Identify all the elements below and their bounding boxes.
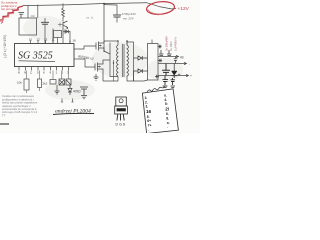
svg-text:wtórnego 2x18 zwojów fi 1.2: wtórnego 2x18 zwojów fi 1.2 [2,110,38,114]
plus mark near row3 [178,74,180,77]
capacitor C4 (dark) [66,79,71,85]
svg-text:2!: 2! [165,107,170,112]
diode D3 [134,56,148,60]
svg-text:13: 13 [44,38,48,42]
red wire (staircase from left edge to +12V rail) [0,6,23,20]
svg-text:ew. 25V: ew. 25V [123,17,135,21]
svg-text:4700μ/16V: 4700μ/16V [122,12,137,16]
top pin stubs [31,40,70,43]
card title script [147,86,167,92]
black tick bottom-left edge [0,123,9,125]
svg-text:os. tL.: os. tL. [86,16,94,20]
wire rail to pin 12 [37,5,39,18]
capacitor C2 [41,22,49,24]
resistor R1 (zigzag) [62,3,65,21]
op IC U1 SG3525 [15,44,75,67]
transistor Q2 (MOSFET IRF540) [96,41,104,52]
TO-220 body [115,106,128,114]
typed gray note (7 lines) [2,94,38,117]
svg-text:47kΩ: 47kΩ [73,90,81,94]
wire secondary bottom [127,71,134,81]
capacitor C8 (electrolytic) [162,64,170,76]
capacitor small near box top [19,13,25,19]
scan mottle [23,16,183,100]
wire through red circle to +12V label [147,3,176,9]
resistor R4 [38,79,42,88]
svg-text:2k2: 2k2 [43,82,48,86]
top pin numbers [29,38,76,43]
wire output row1 [158,56,178,58]
capacitor C7 [167,50,172,56]
svg-text:16: 16 [73,38,77,42]
transistor Q1 extra strokes [58,23,63,27]
svg-text:.: . [167,125,168,129]
capacitor C6 [159,50,164,56]
signature underline [53,113,94,114]
tick marks above signature [61,99,63,103]
wire secondary top [127,42,134,81]
diode D1 [64,30,69,33]
TO-220 label band [117,108,126,111]
bottom pin stubs [19,67,69,71]
wire box to rail [27,5,29,18]
capacitor C1 4700u/16V [104,5,117,15]
svg-text:10k: 10k [17,81,22,85]
svg-text:(-)2 x (+10÷45V): (-)2 x (+10÷45V) [3,35,7,58]
wire stub above filter box [151,40,153,44]
node junction at x=104 on rail [103,3,105,5]
transformer T1 core [122,44,124,77]
capacitor mark box right low [155,75,159,78]
svg-text:10: 10 [29,38,33,42]
transformer T1 primary winding [117,45,119,76]
diode D2 [68,85,72,95]
wire Q2 source to vertical [104,51,110,54]
right pin stub 11 (out B) [74,58,79,60]
svg-text:SG 3525: SG 3525 [18,51,53,62]
wire +12V top rail [23,3,147,6]
svg-text:5:: 5: [165,102,168,106]
red note text top-left [0,0,19,11]
svg-text:.: . [148,128,149,132]
wire gate A to Q2 [79,46,96,49]
svg-text:12: 12 [37,38,41,42]
wire Q2 source down [103,41,105,52]
wire primary bottom / ground bus [103,77,118,82]
TO-220 legs [117,114,124,121]
svg-text:3x 300n/40V: 3x 300n/40V [164,36,168,51]
capacitor mark box right top [158,45,162,48]
capacitor C11 [171,78,176,85]
ellipse second stroke [148,10,162,15]
svg-text:TT: TT [2,113,6,117]
value 4700u/16V [122,12,137,21]
svg-text:+: + [190,74,192,78]
capacitor C3 (dark) [59,79,65,85]
wire primary tap lead [113,60,115,81]
resistor R5 [50,80,56,85]
capacitor mark box right mid [158,59,162,62]
transistor Q3 (MOSFET IRF540) [95,60,110,81]
right pin stub 14 (out A) [74,48,79,50]
capacitor C9 below row1 [174,57,178,64]
filter box [148,44,159,81]
TO-220 package tab [116,97,127,106]
diode D5 (dark) [173,64,175,72]
capacitor C5 [80,87,88,95]
resistor R2 (box) [54,31,62,38]
wire box bottom to ground bus [134,80,148,81]
svg-text:16: 16 [146,109,152,114]
TO-220 pin letters D G S [116,123,126,127]
capacitor C10 [163,76,169,86]
wire pins to C3 C4 [62,71,69,80]
wire transformer end vertical [110,43,118,77]
bottom pin numbers [18,71,69,75]
svg-text:11: 11 [52,38,55,42]
ground marks under caps [163,86,176,88]
TO-220 hole [119,99,123,103]
wire drop to Q2 drain [103,4,105,41]
paper background [0,0,200,133]
red tick under ellipse [155,14,159,16]
svg-text:-: - [189,62,190,66]
wire output row2 [158,63,186,65]
resistor R3 10k pot [24,79,29,90]
svg-text:10n: 10n [31,14,36,18]
wire to pin 11 [52,29,54,44]
svg-text:1uF/400V h: 1uF/400V h [173,37,177,51]
component box (timing network) [19,18,37,35]
card left column entries [145,96,152,132]
ground under C5 [81,96,87,99]
diode D4 [134,69,148,73]
svg-text:N: N [24,71,26,75]
svg-text:+12V: +12V [178,6,190,12]
transistor Q1 [63,21,68,29]
pinout card (tilted) [142,89,178,134]
ground right of IC [94,74,99,80]
svg-text:3.: 3. [146,105,149,109]
card right column entries [164,94,170,130]
svg-text:2x 15kV: 2x 15kV [169,41,173,51]
wire output row3 [158,75,188,77]
ground under C3 [55,85,60,94]
wire gate B to Q3 [79,59,95,67]
svg-text:G: G [119,123,122,127]
red ellipse highlight [146,0,175,15]
wire center tap rail [104,41,127,45]
transformer T1 secondary winding [127,45,129,76]
